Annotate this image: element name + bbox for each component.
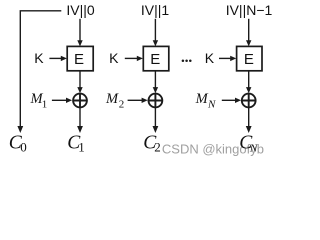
- svg-text:N: N: [207, 98, 216, 110]
- svg-text:M: M: [105, 91, 119, 107]
- svg-text:K: K: [34, 50, 44, 66]
- svg-text:1: 1: [78, 139, 85, 154]
- svg-text:E: E: [74, 51, 84, 68]
- svg-text:N: N: [249, 142, 258, 154]
- svg-text:M: M: [195, 91, 209, 107]
- svg-text:2: 2: [119, 98, 125, 110]
- svg-text:1: 1: [42, 98, 48, 110]
- svg-text:E: E: [150, 51, 160, 68]
- svg-text:0: 0: [20, 139, 27, 154]
- svg-text:IV||0: IV||0: [66, 2, 95, 18]
- svg-text:E: E: [244, 51, 254, 68]
- svg-text:K: K: [205, 50, 215, 66]
- svg-text:IV||N−1: IV||N−1: [226, 2, 273, 18]
- svg-text:IV||1: IV||1: [141, 2, 170, 18]
- svg-text:K: K: [109, 50, 119, 66]
- svg-text:2: 2: [154, 139, 161, 154]
